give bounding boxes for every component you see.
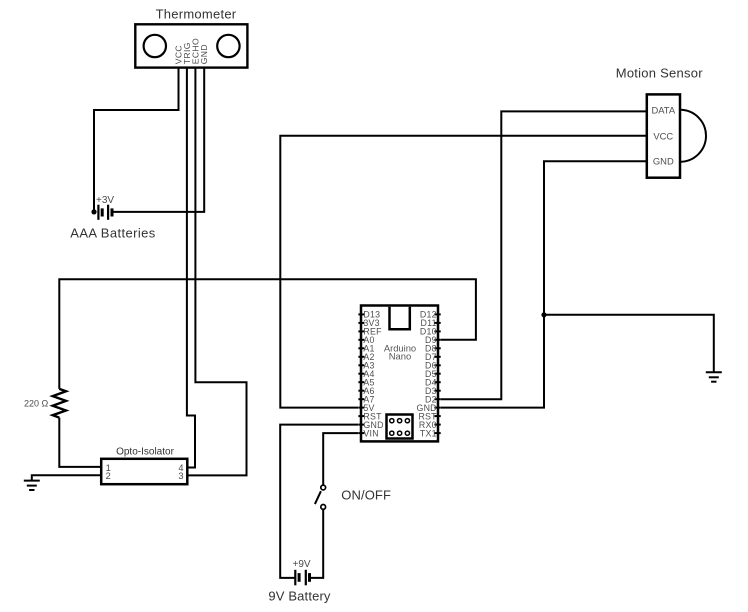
wire resistor bottom to opto pin1 xyxy=(59,418,101,467)
thermometer sensor body xyxy=(135,24,247,67)
motion sensor label xyxy=(616,66,703,81)
svg-text:DATA: DATA xyxy=(651,105,675,116)
arduino left pin ticks xyxy=(358,314,364,433)
opto-isolator pin 3 label xyxy=(178,471,183,481)
motion sensor pin label DATA xyxy=(651,105,675,116)
wire arduino VIN to switch xyxy=(323,433,358,485)
thermometer pin label ECHO xyxy=(190,38,200,64)
wire switch to 9V battery + xyxy=(310,509,324,578)
arduino right pin ticks xyxy=(434,314,440,433)
opto-isolator label xyxy=(116,447,174,458)
ground symbol right xyxy=(706,372,722,382)
battery BT2 9V cells xyxy=(295,570,309,586)
wire opto pin2 to ground xyxy=(32,475,101,480)
wire thermometer TRIG to opto pin4 xyxy=(187,68,195,468)
svg-text:Thermometer: Thermometer xyxy=(156,7,237,22)
svg-text:Opto-Isolator: Opto-Isolator xyxy=(116,447,174,458)
thermometer sensor label xyxy=(156,7,237,22)
battery BT1 label xyxy=(70,226,156,241)
thermometer pin label GND xyxy=(199,44,209,64)
resistor R1 value label xyxy=(24,399,49,409)
wire arduino GND(left) to 9V battery - xyxy=(280,425,358,578)
arduino nano U1 body xyxy=(361,306,438,442)
wire motion GND to arduino GND xyxy=(441,161,647,407)
battery BT1 +3V label xyxy=(96,195,114,206)
opto-isolator pin 4 label xyxy=(178,463,183,473)
svg-text:220 Ω: 220 Ω xyxy=(24,399,49,409)
battery BT1 AAA cells xyxy=(98,205,112,220)
svg-text:Motion Sensor: Motion Sensor xyxy=(616,66,703,81)
svg-text:GND: GND xyxy=(199,44,209,64)
opto-isolator pin 2 label xyxy=(106,471,111,481)
wire thermometer ECHO to opto pin3 xyxy=(187,68,246,476)
arduino ICSP header xyxy=(387,415,413,439)
svg-text:Nano: Nano xyxy=(389,351,411,362)
thermometer pin label VCC xyxy=(173,45,183,64)
svg-text:GND: GND xyxy=(653,156,674,167)
opto-isolator U2 body xyxy=(101,459,187,484)
svg-text:VIN: VIN xyxy=(363,428,378,438)
opto-isolator pin 1 label xyxy=(106,463,111,473)
resistor R1 220Ω xyxy=(53,389,66,418)
wire GND node to right ground xyxy=(544,315,714,372)
switch S1 ON/OFF xyxy=(315,485,326,509)
switch label xyxy=(341,488,391,503)
node GND junction dot xyxy=(541,312,546,317)
arduino right pin labels xyxy=(416,310,437,439)
wire motion DATA to arduino D2 xyxy=(441,111,647,399)
svg-text:VCC: VCC xyxy=(653,131,673,142)
svg-text:9V Battery: 9V Battery xyxy=(268,589,331,604)
battery BT2 label xyxy=(268,589,331,604)
wire battery - to thermometer GND xyxy=(114,68,205,212)
svg-text:ON/OFF: ON/OFF xyxy=(341,488,391,503)
svg-text:2: 2 xyxy=(106,471,111,481)
motion sensor body xyxy=(647,94,706,177)
svg-text:AAA Batteries: AAA Batteries xyxy=(70,226,156,241)
node battery + junction dot xyxy=(91,209,96,214)
arduino left pin labels xyxy=(363,310,383,439)
battery BT2 +9V label xyxy=(293,559,311,570)
ground symbol left xyxy=(24,481,40,490)
svg-text:+3V: +3V xyxy=(96,195,114,206)
motion sensor pin label GND xyxy=(653,156,674,167)
thermometer pin label TRIG xyxy=(182,42,192,64)
svg-text:TX1: TX1 xyxy=(420,428,437,438)
wire thermometer VCC to battery + xyxy=(94,68,179,212)
wire resistor top to arduino D9 xyxy=(59,279,476,389)
motion sensor pin label VCC xyxy=(653,131,673,142)
wire motion VCC to arduino 5V xyxy=(280,136,647,408)
svg-text:+9V: +9V xyxy=(293,559,311,570)
arduino nano name label xyxy=(384,343,416,362)
svg-text:3: 3 xyxy=(178,471,183,481)
